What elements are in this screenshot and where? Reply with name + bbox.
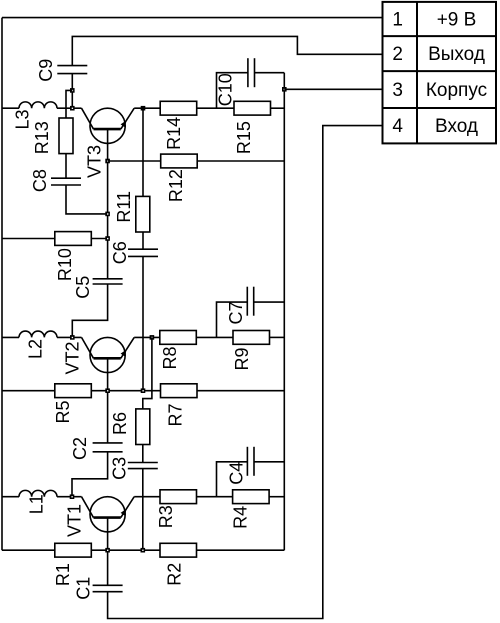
svg-text:C2: C2 — [70, 437, 90, 460]
wire R11 to C6 — [142, 232, 144, 249]
svg-text:C6: C6 — [110, 241, 130, 264]
label R3 — [156, 505, 176, 528]
wire base row VT3 right — [57, 107, 82, 109]
node R6 column top — [150, 335, 155, 340]
wire R1 row — [2, 549, 55, 551]
wire C4 right — [254, 461, 284, 463]
svg-text:C5: C5 — [73, 276, 93, 299]
svg-text:VT2: VT2 — [63, 341, 83, 374]
label R5 — [53, 400, 73, 423]
resistor R4 — [233, 490, 270, 504]
wire VT2 base lead — [107, 358, 109, 443]
capacitor C2 — [93, 443, 123, 452]
wire VT1 base lead — [107, 518, 109, 586]
label R9 — [232, 347, 252, 370]
wire R14-R15 — [197, 107, 234, 109]
wire C6 down — [142, 256, 144, 390]
svg-text:R7: R7 — [166, 403, 186, 426]
inductor L2 — [19, 331, 57, 337]
wire R1 to R2 — [91, 549, 160, 551]
svg-text:L3: L3 — [12, 109, 32, 129]
capacitor C6 — [128, 249, 158, 256]
wire base row VT1 left — [2, 496, 19, 498]
wire R10 row — [2, 238, 55, 240]
wire C5 return — [72, 284, 107, 337]
svg-text:C9: C9 — [36, 59, 56, 82]
svg-text:1: 1 — [392, 9, 403, 30]
wire C4 drop — [217, 462, 248, 497]
svg-text:Вход: Вход — [435, 116, 478, 137]
label R15 — [234, 121, 254, 154]
svg-text:R2: R2 — [164, 563, 184, 586]
label R6 — [110, 412, 130, 435]
resistor R12 — [161, 154, 198, 168]
svg-text:L1: L1 — [26, 494, 46, 514]
wire VT3 base lead — [107, 129, 109, 279]
node VT3 emitter — [141, 106, 146, 111]
resistor R1 — [55, 543, 92, 557]
resistor R8 — [160, 331, 197, 345]
svg-text:R15: R15 — [234, 121, 254, 154]
svg-text:C3: C3 — [110, 457, 130, 480]
resistor R2 — [160, 543, 197, 557]
node C3 bottom — [141, 548, 146, 553]
label R13 — [32, 121, 52, 154]
capacitor C9 — [57, 66, 87, 74]
svg-text:Корпус: Корпус — [426, 80, 487, 101]
transistor VT1 — [82, 497, 135, 532]
svg-text:R13: R13 — [32, 121, 52, 154]
svg-text:Выход: Выход — [428, 44, 485, 65]
wire emitter row VT2 — [134, 336, 160, 338]
wire R11 column top — [142, 108, 144, 196]
wire R6 column — [143, 337, 152, 409]
resistor R5 — [55, 384, 92, 398]
resistor R10 — [55, 232, 92, 246]
wire R15 right — [271, 107, 285, 109]
wire C2 return — [72, 452, 108, 497]
wire R4 right — [269, 496, 284, 498]
wire C7 drop — [217, 302, 248, 337]
wire R9 right — [270, 336, 285, 338]
transistor VT2 — [82, 337, 135, 372]
node base row L2 — [70, 335, 75, 340]
wire C9 bottom lead — [71, 74, 73, 109]
wire emitter row VT1 — [134, 496, 160, 498]
wire C1 to input — [108, 126, 383, 619]
label VT2 — [63, 341, 83, 374]
label VT1 — [64, 504, 84, 537]
svg-text:L2: L2 — [26, 339, 46, 359]
svg-text:R11: R11 — [114, 191, 134, 223]
resistor R14 — [160, 101, 197, 115]
resistor R7 — [161, 384, 198, 398]
node VT2 base tap — [105, 388, 110, 393]
svg-text:C8: C8 — [30, 169, 50, 192]
label L1 — [26, 494, 46, 514]
svg-text:C1: C1 — [74, 577, 94, 600]
pin 2 number — [392, 44, 403, 65]
svg-text:R4: R4 — [230, 506, 250, 529]
svg-text:C10: C10 — [215, 73, 235, 106]
resistor R13 — [59, 118, 73, 154]
pin 2 name — [428, 44, 485, 65]
svg-text:R6: R6 — [110, 412, 130, 435]
resistor R15 — [234, 101, 271, 115]
node base row L3 — [70, 106, 75, 111]
capacitor C1 — [93, 585, 123, 591]
svg-text:R14: R14 — [164, 117, 184, 150]
label C3 — [110, 457, 130, 480]
label R10 — [55, 248, 75, 281]
svg-text:R5: R5 — [53, 400, 73, 423]
connector table — [383, 2, 497, 144]
svg-text:R3: R3 — [156, 505, 176, 528]
pin 1 name — [437, 9, 477, 30]
wire C3 down — [142, 469, 144, 550]
wire R13 to C8 — [65, 154, 67, 179]
wire +9V rail left — [1, 18, 3, 551]
node R10 tap — [105, 236, 110, 241]
wire R5 row — [2, 390, 55, 392]
wire R12 right — [197, 160, 284, 162]
resistor R3 — [160, 490, 197, 504]
node VT3 base-R12 — [105, 159, 110, 164]
wire C10 right — [255, 72, 285, 74]
label L2 — [26, 339, 46, 359]
capacitor C5 — [93, 279, 123, 284]
svg-text:R12: R12 — [166, 169, 186, 202]
label C2 — [70, 437, 90, 460]
label R8 — [160, 346, 180, 369]
wire C7 right — [254, 301, 285, 303]
wire base row VT2 left — [2, 336, 19, 338]
label C5 — [73, 276, 93, 299]
svg-text:C7: C7 — [226, 301, 246, 324]
label C1 — [74, 577, 94, 600]
capacitor C4 — [247, 447, 254, 476]
transistor VT3 — [82, 108, 135, 143]
wire R3-R4 — [197, 496, 233, 498]
pin 3 name — [426, 80, 487, 101]
node C8 return — [105, 212, 110, 217]
svg-text:C4: C4 — [226, 462, 246, 485]
svg-text:+9 В: +9 В — [437, 9, 477, 30]
wire C8 return — [66, 185, 108, 214]
wire emitter row VT3 — [134, 107, 160, 109]
label R2 — [164, 563, 184, 586]
svg-text:VT1: VT1 — [64, 504, 84, 537]
label R14 — [164, 117, 184, 150]
svg-text:4: 4 — [392, 116, 403, 137]
wire row R12 left — [108, 160, 161, 162]
wire R7 right — [197, 390, 284, 392]
label C7 — [226, 301, 246, 324]
label R4 — [230, 506, 250, 529]
svg-text:R8: R8 — [160, 346, 180, 369]
resistor R9 — [233, 331, 270, 345]
node base row L1 — [70, 494, 75, 499]
label C8 — [30, 169, 50, 192]
label R1 — [53, 563, 73, 586]
label R11 — [114, 191, 134, 223]
svg-text:R1: R1 — [53, 563, 73, 586]
wire base row VT3 left — [2, 107, 19, 109]
node VT1 base tap — [105, 548, 110, 553]
capacitor C8 — [51, 178, 81, 185]
pin 4 name — [435, 116, 478, 137]
wire base row VT1 right — [57, 496, 82, 498]
capacitor C10 — [248, 58, 255, 87]
wire base row VT2 right — [57, 336, 82, 338]
svg-text:R10: R10 — [55, 248, 75, 281]
pin 3 number — [392, 80, 403, 101]
label R7 — [166, 403, 186, 426]
svg-text:VT3: VT3 — [84, 145, 104, 178]
label C4 — [226, 462, 246, 485]
node C6 bottom — [141, 388, 146, 393]
wire R13 jog — [66, 90, 72, 118]
pin 1 number — [392, 9, 403, 30]
wire R8-R9 — [196, 336, 233, 338]
wire C10 drop — [217, 73, 248, 109]
wire R2 right — [197, 549, 285, 551]
wire R5 to R7 — [91, 390, 160, 392]
label C6 — [110, 241, 130, 264]
label VT3 — [84, 145, 104, 178]
capacitor C7 — [247, 287, 253, 316]
wire ground trunk — [283, 73, 285, 551]
label L3 — [12, 109, 32, 129]
pin 4 number — [392, 116, 403, 137]
resistor R11 — [136, 196, 150, 232]
inductor L1 — [19, 490, 57, 496]
svg-text:R9: R9 — [232, 347, 252, 370]
node C9-R13 branch — [70, 88, 75, 93]
wire C9 top to Vyhod — [72, 36, 382, 65]
label C9 — [36, 59, 56, 82]
node korpus tap — [282, 87, 287, 92]
svg-text:2: 2 — [392, 44, 403, 65]
wire +9V rail top — [2, 17, 383, 19]
wire korpus — [284, 88, 382, 90]
wire R6 to C3 — [142, 445, 144, 463]
inductor L3 — [19, 102, 57, 108]
capacitor C3 — [128, 463, 158, 469]
label R12 — [166, 169, 186, 202]
svg-text:3: 3 — [392, 80, 403, 101]
label C10 — [215, 73, 235, 106]
resistor R6 — [136, 409, 150, 445]
wire R10 right — [91, 238, 107, 240]
